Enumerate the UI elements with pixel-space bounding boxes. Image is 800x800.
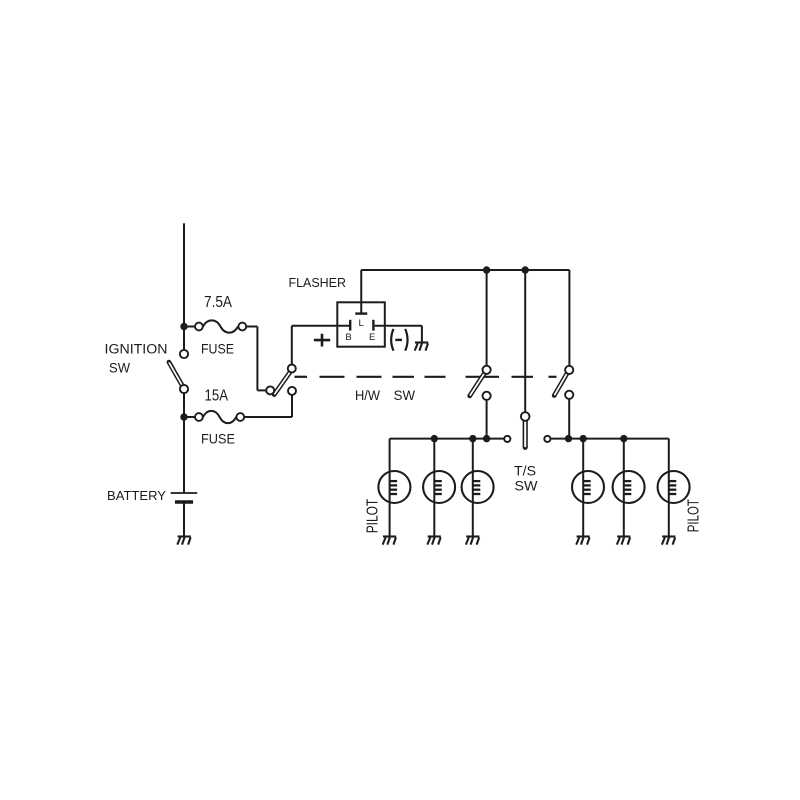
svg-text:PILOT: PILOT [686, 499, 703, 532]
svg-text:E: E [369, 332, 375, 343]
svg-text:FUSE: FUSE [201, 342, 234, 357]
svg-text:IGNITION: IGNITION [105, 342, 168, 357]
svg-text:7.5A: 7.5A [204, 294, 232, 311]
svg-text:FUSE: FUSE [201, 432, 235, 447]
svg-text:T/S: T/S [514, 463, 536, 479]
svg-text:FLASHER: FLASHER [289, 275, 347, 290]
svg-text:15A: 15A [205, 388, 229, 405]
svg-text:SW: SW [109, 361, 130, 376]
svg-text:B: B [345, 332, 351, 343]
svg-text:PILOT: PILOT [364, 499, 381, 534]
svg-text:BATTERY: BATTERY [107, 488, 166, 503]
svg-text:SW: SW [515, 478, 539, 494]
svg-text:SW: SW [394, 388, 416, 403]
svg-text:L: L [358, 318, 363, 329]
svg-text:H/W: H/W [355, 388, 380, 403]
